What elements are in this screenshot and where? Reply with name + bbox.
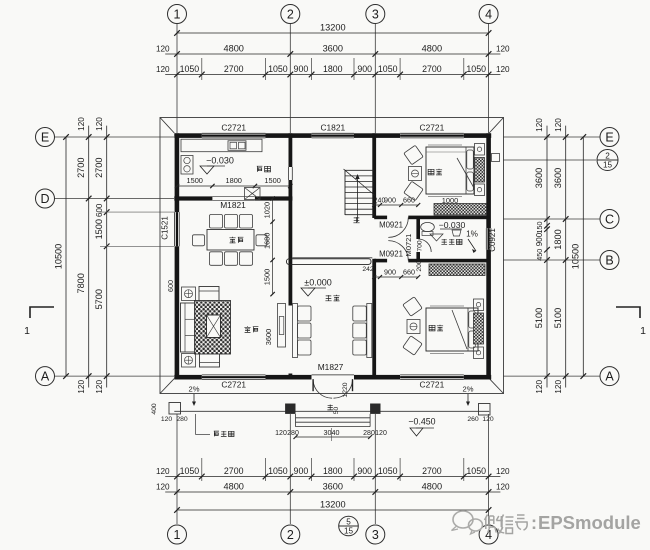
left axis lines [55,136,175,138]
svg-text:120: 120 [496,65,510,74]
bottom axis bubbles [168,525,187,544]
svg-text:120: 120 [156,65,170,74]
svg-text:120: 120 [496,45,510,54]
hall bench left [293,304,298,358]
bottom exterior wall (axis A) [174,375,202,380]
svg-text:900: 900 [357,64,372,74]
svg-text:A: A [605,370,614,384]
bottom bedroom tiny text strips [430,305,464,307]
svg-text:700: 700 [417,240,424,252]
svg-text:660: 660 [403,268,415,277]
svg-text:4800: 4800 [223,44,243,54]
svg-text:1800: 1800 [323,64,343,74]
stair treads [344,170,346,215]
svg-text:C0921: C0921 [488,228,497,252]
dining vertical dim chain 1020/1680/1500 [272,199,274,295]
bottom bedroom dresser hatch [474,313,484,344]
svg-text:120: 120 [95,117,104,131]
bottom bedroom side table [407,320,420,334]
top bedroom wardrobe [434,204,487,216]
svg-text:4800: 4800 [422,482,442,492]
svg-text:5: 5 [346,518,351,527]
svg-text:900: 900 [357,466,372,476]
svg-text:120: 120 [156,45,170,54]
label bathroom 卫生间 [441,239,447,245]
left chain lines [65,137,67,376]
window C1521 dining left [174,212,176,246]
svg-text:120: 120 [275,430,287,437]
corridor top wall (bedroom south) y=C [374,216,387,220]
svg-text:−0.030: −0.030 [206,156,234,166]
top bedroom bed [426,147,474,194]
stair up arrow [357,176,359,222]
svg-text:3: 3 [372,7,379,21]
porch dim 3040 [296,436,371,438]
top axis bubbles 1-4 [168,5,187,24]
door M1827 hall bottom opening [312,374,354,376]
window C2721 bedroom bottom [400,374,464,376]
svg-text:120: 120 [496,483,510,492]
top bedroom armchairs rotated [404,145,423,164]
svg-text:1680: 1680 [263,233,272,249]
bottom bedroom wardrobe [429,264,485,276]
window C1821 stair top [312,132,354,134]
left inner chain [104,134,110,140]
svg-text:2700: 2700 [224,466,244,476]
svg-text:120: 120 [535,118,544,132]
svg-text:EPSmodule: EPSmodule [538,512,641,533]
svg-text:M1827: M1827 [318,362,344,372]
dining chair left [193,235,205,246]
corridor dim chains [374,204,418,206]
svg-text:1800: 1800 [225,176,241,185]
svg-text:50: 50 [333,407,340,415]
drain apron line [174,410,489,412]
svg-text:120: 120 [554,118,563,132]
svg-text:1: 1 [174,528,181,542]
svg-text:120: 120 [156,483,170,492]
svg-text:1050: 1050 [378,466,398,476]
living rug patterned [195,301,231,355]
svg-text:3600: 3600 [323,482,343,492]
bubble 5/15 [339,516,359,536]
left middle chain [86,134,92,140]
M0921 top door gap lines + arc [388,217,408,237]
svg-text:900: 900 [294,64,309,74]
corridor bottom wall (bathroom south) y=B [374,259,387,263]
left exterior wall (axis 1) [175,133,180,212]
svg-text:E: E [41,130,49,144]
porch column right [370,404,380,414]
label living 客厅 [244,326,250,332]
right chain lines [546,126,548,388]
svg-text:1050: 1050 [180,64,200,74]
svg-text:M0921: M0921 [379,250,403,259]
svg-text:1220: 1220 [342,382,349,397]
svg-text:3600: 3600 [323,44,343,54]
svg-text:B: B [605,253,613,267]
svg-text:4: 4 [485,7,492,21]
svg-text:C2721: C2721 [221,380,246,390]
svg-text:120: 120 [482,416,494,423]
svg-text:C1521: C1521 [161,216,170,240]
window C0921 bathroom right [485,228,487,250]
svg-text:1050: 1050 [180,466,200,476]
svg-text:5100: 5100 [553,308,563,328]
svg-text:1050: 1050 [466,466,486,476]
bathroom toilet [421,222,435,231]
top dim row fine chain [165,74,500,76]
svg-text:E: E [605,130,613,144]
dining chairs bottom row [210,252,223,265]
label bedroom 卧室 bottom [429,325,435,331]
svg-text:−0.030: −0.030 [439,220,466,230]
top axis grid lines [176,24,178,134]
svg-text:280: 280 [176,416,188,423]
svg-text:M0721: M0721 [404,234,413,257]
svg-text:150: 150 [535,222,544,234]
svg-text:200: 200 [416,260,423,272]
svg-text:C2721: C2721 [221,123,246,133]
svg-text:120: 120 [77,380,86,394]
porch column left [285,404,295,414]
bathroom west wall [416,217,420,239]
svg-text:120: 120 [156,467,170,476]
svg-text:120: 120 [161,416,173,423]
dining chairs top row [210,215,223,229]
top dim row 13200 [177,32,489,34]
dining table [207,230,254,251]
svg-text:2: 2 [287,528,294,542]
svg-text:600: 600 [166,280,175,292]
svg-text:120: 120 [535,380,544,394]
svg-text:120: 120 [554,380,563,394]
label up 上 [353,217,359,223]
hall bench right [367,304,372,358]
svg-text:C1821: C1821 [320,123,345,133]
svg-text:13200: 13200 [320,23,346,33]
svg-text:3600: 3600 [264,329,273,345]
svg-text:900: 900 [535,232,544,246]
left inner extension lines [100,211,174,213]
svg-text:1500: 1500 [263,269,272,285]
svg-text:1800: 1800 [553,229,563,249]
svg-text:13200: 13200 [320,500,346,510]
svg-text:2700: 2700 [422,64,442,74]
right section marker 1 [616,307,640,318]
top bedroom headboard hatch [475,158,485,183]
kitchen sink [228,141,246,151]
living coffee table [207,315,221,338]
svg-text:1050: 1050 [268,64,288,74]
label bedroom 卧室 top [428,169,434,175]
top bedroom nightstands [475,144,485,156]
bottom dim row 13200 [177,509,489,511]
M1821 door threshold [212,196,255,198]
svg-text:1050: 1050 [268,466,288,476]
svg-text:D: D [40,192,49,206]
svg-text:M0921: M0921 [379,221,403,230]
svg-text:2700: 2700 [422,466,442,476]
window C2721 bedroom top [400,132,464,134]
svg-text:C2721: C2721 [420,380,445,390]
svg-text:2%: 2% [189,385,200,394]
label dining 餐厅 [229,237,235,243]
drain outlet label left 排水口 [195,414,197,435]
kitchen counter [181,139,262,152]
eave corner diagonals [160,118,174,134]
svg-text:450: 450 [535,249,544,261]
svg-text:M1821: M1821 [220,200,246,210]
top extension lines [201,58,203,80]
small flue box right [492,154,500,162]
svg-text:120: 120 [77,117,86,131]
right outer 10500 [581,134,587,140]
svg-text:2700: 2700 [94,157,104,177]
svg-text:1020: 1020 [263,202,272,218]
svg-text:120: 120 [375,430,387,437]
hall altar table [287,259,372,265]
drain corner box left [169,403,181,415]
svg-text:260: 260 [467,416,479,423]
right inner chain [544,134,550,140]
svg-text:5700: 5700 [94,289,104,309]
hall double door arcs [313,379,332,398]
M0721 door arc [418,239,431,252]
svg-text:400: 400 [151,403,158,415]
svg-text:10500: 10500 [571,244,581,270]
svg-text:A: A [41,370,50,384]
svg-text:120: 120 [95,380,104,394]
bottom bedroom armchairs [403,297,422,316]
svg-text:5100: 5100 [534,308,544,328]
svg-text:2: 2 [605,152,610,161]
kitchen inner dim chain 1500/1800/1500 [177,185,290,187]
svg-text:7800: 7800 [76,273,86,293]
left outer 10500 [63,134,69,140]
svg-text:1800: 1800 [323,466,343,476]
stair break diagonal [344,169,376,196]
svg-text:1%: 1% [466,230,478,239]
svg-text:600: 600 [95,203,104,217]
bottom dim row 4800/3600/4800 [165,491,500,493]
living/hall opening edge bottom segment [289,374,293,380]
bathroom basin [430,234,443,241]
svg-text:1500: 1500 [94,219,104,239]
porch steps [296,417,371,419]
living armchair top [199,287,219,303]
svg-text:900: 900 [294,466,309,476]
svg-text:C: C [605,212,614,226]
svg-text:C2721: C2721 [420,123,445,133]
svg-text:1050: 1050 [378,64,398,74]
top bedroom tiny text strips [428,144,462,146]
svg-text:4800: 4800 [422,44,442,54]
svg-text:1500: 1500 [186,176,202,185]
kitchen flue [245,188,261,200]
svg-text:3600: 3600 [534,168,544,188]
living corner table bottom [182,354,196,368]
window C2721 living bottom [202,374,266,376]
svg-text:15: 15 [344,527,354,536]
right exterior wall (axis 4) [486,133,491,228]
svg-text:±0.000: ±0.000 [304,278,331,288]
svg-text::: : [531,513,537,533]
top exterior wall (axis E) [174,133,202,138]
svg-text:2: 2 [287,7,294,21]
svg-text:1: 1 [24,325,30,337]
svg-text:1050: 1050 [466,64,486,74]
window C2721 kitchen top [202,132,266,134]
svg-text:4800: 4800 [223,482,243,492]
svg-text:280: 280 [287,430,299,437]
svg-text:1: 1 [174,7,181,21]
top dim row 4800/3600/4800 [165,53,500,55]
right bubble 2/15 [503,159,596,161]
living armchair bottom [200,352,220,368]
interior wall axis D kitchen/dining [174,196,212,200]
svg-text:242: 242 [362,266,374,273]
interior wall axis 2 (dining/stair hall) [289,133,293,167]
svg-text:15: 15 [603,161,613,170]
dining chair right [256,235,267,246]
svg-text:120: 120 [496,467,510,476]
kitchen stove [181,156,193,175]
label hall 堂屋 [325,295,331,301]
living corner table top [182,287,196,301]
svg-text:3: 3 [372,528,379,542]
svg-text:10500: 10500 [54,244,64,270]
watermark wechat icon [452,511,483,534]
svg-text:−0.450: −0.450 [408,417,435,427]
left section marker 1 [30,307,54,318]
bottom extension lines [176,414,178,524]
bottom dim fine chain [165,476,500,478]
svg-text:900: 900 [384,196,396,205]
label kitchen 厨房 [257,166,263,172]
watermark text 微信号: EPSmodule [485,515,528,534]
svg-text:900: 900 [384,268,396,277]
bathroom fixture [452,230,461,236]
right axis lines [503,136,600,138]
svg-text:1500: 1500 [264,176,280,185]
svg-text:3040: 3040 [324,428,340,437]
living sofa long left [181,303,197,352]
pass-through opening lines on axis2 wall [288,167,290,180]
svg-text:1: 1 [640,325,646,337]
svg-text:2700: 2700 [224,64,244,74]
svg-text:2700: 2700 [76,157,86,177]
interior wall axis 3 (hall east) [372,133,376,218]
svg-text:3600: 3600 [553,168,563,188]
bottom bedroom bed [426,308,478,351]
svg-text:2%: 2% [463,385,474,394]
eave overhang outline [160,118,504,394]
right middle chain [563,134,569,140]
svg-text:280: 280 [363,430,375,437]
top bedroom side table [409,167,422,181]
drain corner box right [479,404,491,416]
bottom bedroom nightstands [474,299,484,311]
tv cabinet [278,304,286,348]
hall beam line at B [292,257,372,259]
porch label 下 + 50 [327,405,333,411]
